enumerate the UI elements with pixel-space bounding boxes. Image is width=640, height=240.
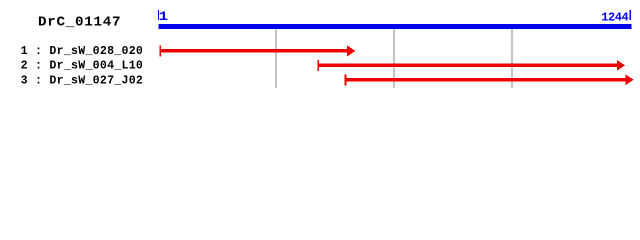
title DrC_01147 xyxy=(38,15,121,31)
scale end label 1244 xyxy=(601,11,629,25)
scale bar (blue, positions 1-1244) xyxy=(159,24,632,29)
scale end tick | xyxy=(630,10,631,20)
svg-text:2 : Dr_sW_004_L10: 2 : Dr_sW_004_L10 xyxy=(21,60,143,73)
read 3 arrow head xyxy=(626,74,634,85)
row 3 label: 3 : Dr_sW_027_J02 xyxy=(21,74,143,87)
svg-text:3 : Dr_sW_027_J02: 3 : Dr_sW_027_J02 xyxy=(21,74,143,87)
read 2 arrow line xyxy=(318,64,617,67)
gridline 2 xyxy=(393,29,394,88)
svg-text:DrC_01147: DrC_01147 xyxy=(38,15,121,31)
gridline 1 xyxy=(275,29,276,88)
scale start label 1 xyxy=(159,9,169,24)
gridline 3 xyxy=(511,29,512,88)
read 1 arrow start tick xyxy=(159,45,161,56)
svg-text:1244: 1244 xyxy=(601,11,629,25)
svg-text:1 : Dr_sW_028_020: 1 : Dr_sW_028_020 xyxy=(21,45,143,58)
row 1 label: 1 : Dr_sW_028_020 xyxy=(21,45,143,58)
read 1 arrow head xyxy=(347,46,355,57)
read 3 arrow start tick xyxy=(345,74,347,85)
read 2 arrow head xyxy=(617,60,625,71)
read 2 arrow start tick xyxy=(317,60,319,71)
svg-text:1: 1 xyxy=(159,9,169,24)
row 2 label: 2 : Dr_sW_004_L10 xyxy=(21,60,143,73)
read 3 arrow line xyxy=(345,78,625,81)
read 1 arrow line xyxy=(160,49,348,52)
scale start tick | xyxy=(158,10,159,20)
